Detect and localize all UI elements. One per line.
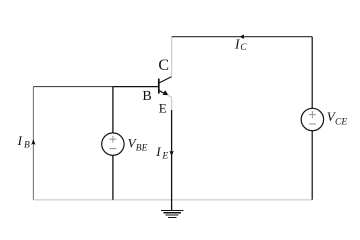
svg-text:BE: BE [136, 144, 148, 154]
arrow I_C (left) [240, 34, 244, 39]
svg-text:I: I [155, 144, 161, 159]
wire: emitter corner (light gray) [167, 95, 172, 110]
wire: V_BE branch bottom [112, 155, 114, 200]
ground [161, 211, 184, 218]
V_CE plus [309, 114, 316, 116]
wire: collector vertical (light gray) [171, 37, 173, 76]
wire: top collector rail [172, 36, 313, 38]
source V_CE [301, 108, 323, 130]
transistor Q1: collector lead [159, 77, 171, 83]
wire: bottom rail (light gray) [33, 199, 312, 201]
svg-text:B: B [24, 140, 30, 150]
wire: right vertical upper [311, 37, 313, 109]
arrow I_B (up) [31, 139, 35, 145]
wire: left vertical (gray) [32, 87, 34, 200]
svg-text:CE: CE [335, 117, 347, 127]
wire: right vertical lower [311, 131, 313, 200]
svg-text:E: E [159, 100, 167, 115]
svg-text:C: C [240, 42, 247, 52]
V_CE minus [309, 123, 316, 125]
V_BE plus [109, 138, 116, 140]
svg-text:B: B [142, 89, 151, 104]
wire: V_BE branch top [112, 87, 114, 133]
source V_BE [102, 133, 124, 155]
wire: base wire right segment (black) [113, 86, 158, 88]
transistor Q1: base bar [158, 79, 160, 94]
V_BE minus [109, 148, 116, 150]
svg-text:I: I [17, 133, 23, 148]
svg-text:E: E [161, 151, 168, 161]
wire: emitter vertical (black) [171, 110, 173, 210]
svg-text:C: C [158, 57, 169, 74]
wire: base wire left segment (gray) [33, 86, 113, 88]
arrow I_E (down) [169, 151, 173, 157]
transistor Q1: emitter lead with arrow [159, 91, 167, 95]
